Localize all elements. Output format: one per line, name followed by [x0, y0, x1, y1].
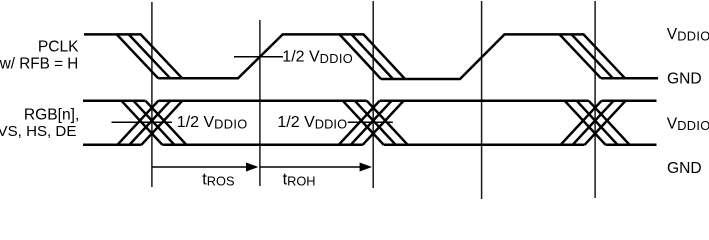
- svg-text:GND: GND: [667, 160, 702, 177]
- 1/2 VDDIO pointer through crossing X2: [348, 121, 393, 123]
- svg-text:1/2 VDDIO: 1/2 VDDIO: [282, 48, 353, 66]
- svg-text:1/2 VDDIO: 1/2 VDDIO: [277, 114, 347, 132]
- PCLK falling edge 2 skew lines: [340, 34, 382, 79]
- svg-text:PCLK: PCLK: [38, 39, 79, 56]
- reference line 3 (RGB crossing 2, tROH end): [372, 1, 374, 188]
- 1/2 VDDIO pointer through crossing X1: [112, 121, 173, 123]
- reference line 5 (RGB crossing 3): [594, 1, 596, 198]
- signal RGB[n],VS,HS,DE bus top rail: [83, 99, 657, 102]
- PCLK falling edge 3 skew lines: [560, 34, 602, 78]
- svg-text:RGB[n],: RGB[n],: [24, 107, 79, 124]
- reference line 1 (PCLK falling edge 1 / RGB crossing 1): [151, 2, 153, 187]
- reference line 4 (PCLK rising edge 2): [481, 1, 483, 199]
- dimension arrow tROH (line2 to line3): [260, 166, 361, 168]
- bus crossing X3 at x=595.1: [561, 101, 630, 145]
- svg-text:tROH: tROH: [283, 171, 316, 189]
- svg-text:VS, HS, DE: VS, HS, DE: [0, 123, 76, 140]
- signal RGB[n],VS,HS,DE bus bottom rail: [83, 144, 657, 147]
- svg-text:1/2 VDDIO: 1/2 VDDIO: [177, 114, 248, 132]
- svg-text:tROS: tROS: [202, 171, 234, 189]
- reference line 2 (PCLK rising edge 1, tROS end): [259, 20, 261, 186]
- svg-text:VDDIO: VDDIO: [667, 115, 709, 133]
- 1/2 VDDIO pointer on PCLK rising edge 1: [234, 56, 283, 58]
- bus crossing X1 at x=151.9: [117, 101, 186, 145]
- svg-text:VDDIO: VDDIO: [667, 26, 709, 44]
- svg-text:w/ RFB = H: w/ RFB = H: [0, 55, 78, 72]
- signal PCLK waveform outline: [84, 34, 658, 79]
- dimension arrow tROS (line1 to line2): [152, 166, 247, 168]
- svg-text:GND: GND: [667, 71, 702, 88]
- bus crossing X2 at x=373.2: [339, 101, 408, 145]
- PCLK falling edge 1 skew lines: [117, 34, 159, 78]
